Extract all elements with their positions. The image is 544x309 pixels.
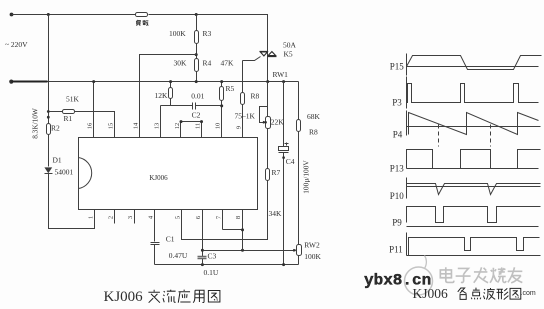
svg-text:R3: R3 <box>203 29 212 38</box>
waveform P10 axis <box>406 178 408 199</box>
svg-text:ybx8.cn: ybx8.cn <box>364 272 431 290</box>
diode D1 <box>44 167 52 173</box>
projection dashed line 1 <box>438 125 440 147</box>
svg-text:K5: K5 <box>284 50 293 59</box>
waveform P15 baseline <box>407 66 539 68</box>
svg-text:P13: P13 <box>390 164 405 174</box>
wire supply column <box>48 15 50 167</box>
svg-text:12K: 12K <box>155 91 169 100</box>
svg-text:8.3K/10W: 8.3K/10W <box>30 108 39 139</box>
resistor R3 body <box>195 31 199 44</box>
watermark swirl circle <box>405 267 433 295</box>
resistor R8 68K column <box>298 82 300 245</box>
node R3 top <box>195 13 198 16</box>
svg-text:~ 220V: ~ 220V <box>5 40 28 49</box>
wire bottom rail <box>155 264 299 266</box>
waveform P13 baseline <box>407 168 539 170</box>
node below C4 <box>282 156 285 159</box>
caption 各点波形图 <box>458 288 521 300</box>
node AC terminal top <box>10 13 14 17</box>
wire pin13 column <box>160 106 162 138</box>
svg-text:47K: 47K <box>221 59 235 68</box>
wire pin16 column <box>93 82 95 138</box>
resistor R2 body <box>47 124 51 135</box>
wire pin7 pin8 link <box>223 209 243 251</box>
svg-text:100K: 100K <box>304 252 321 261</box>
svg-text:2: 2 <box>107 216 114 219</box>
svg-text:13: 13 <box>154 123 161 130</box>
svg-text:75–1K: 75–1K <box>235 112 256 121</box>
waveform P10 trace <box>407 184 541 195</box>
label 负载 <box>136 20 148 26</box>
wire triac gate <box>243 57 261 61</box>
wire pin2 stub <box>114 209 116 224</box>
capacitor C2 wire <box>161 105 222 107</box>
svg-text:16: 16 <box>87 122 94 129</box>
wire D1 to pin1 <box>49 174 95 229</box>
svg-text:0.1U: 0.1U <box>204 268 219 277</box>
resistor R1 with wire to pin15 <box>49 112 115 138</box>
watermark 电子发烧友 <box>440 267 522 283</box>
waveform P11 axis <box>406 233 408 256</box>
svg-text:RW2: RW2 <box>304 241 320 250</box>
node R2 top <box>47 116 50 119</box>
svg-text:P11: P11 <box>389 244 403 254</box>
svg-text:.com: .com <box>521 290 536 297</box>
node R3 R4 junction <box>195 53 198 56</box>
svg-text:100μ/100V: 100μ/100V <box>302 160 311 194</box>
potentiometer RW2 body <box>297 245 302 256</box>
svg-text:RW1: RW1 <box>273 70 289 79</box>
svg-text:51K: 51K <box>66 95 80 104</box>
svg-text:10: 10 <box>215 123 222 130</box>
svg-text:R7: R7 <box>272 168 281 177</box>
svg-text:R2: R2 <box>51 124 60 133</box>
svg-text:68K: 68K <box>307 112 321 121</box>
svg-text:4: 4 <box>148 215 155 219</box>
svg-text:8: 8 <box>235 216 242 219</box>
svg-text:9: 9 <box>236 126 243 129</box>
capacitor C4 column <box>283 82 285 265</box>
watermark swirl tail <box>425 256 427 269</box>
waveform P15 axis <box>406 54 408 76</box>
wire RW1 wiper loop <box>260 107 268 123</box>
svg-text:1: 1 <box>87 216 94 219</box>
node pin16 bus <box>92 80 95 83</box>
op-amp U1 KJ006 IC body <box>79 138 258 210</box>
resistor RL load body <box>136 13 148 17</box>
wire neutral bus <box>12 81 299 83</box>
waveform P13 trace <box>407 150 541 169</box>
node C4 bus <box>282 80 285 83</box>
resistor R8 gate column pin9 <box>242 61 244 138</box>
wire neutral bold segment <box>12 80 48 82</box>
svg-text:7: 7 <box>216 215 223 219</box>
node R4 bottom <box>195 80 198 83</box>
svg-text:11: 11 <box>195 123 202 129</box>
wire pin6 pin8 to RW2 wiper <box>203 250 294 252</box>
svg-text:P4: P4 <box>393 130 403 140</box>
svg-text:50A: 50A <box>283 41 297 50</box>
svg-text:C1: C1 <box>166 235 175 244</box>
capacitor C4 plates <box>279 147 289 151</box>
svg-text:P15: P15 <box>390 62 405 72</box>
svg-text:R5: R5 <box>226 84 235 93</box>
svg-text:30K: 30K <box>174 59 188 68</box>
svg-text:R1: R1 <box>64 114 73 123</box>
wire junction to pin14 <box>140 55 197 138</box>
resistor 12K column <box>170 82 172 106</box>
svg-text:D1: D1 <box>53 156 62 165</box>
svg-text:KJ006: KJ006 <box>149 174 168 182</box>
wire pin12 pin11 link <box>181 122 202 138</box>
svg-text:100K: 100K <box>169 29 186 38</box>
svg-text:R8: R8 <box>309 128 318 137</box>
waveform P11 trace <box>409 238 540 256</box>
waveform P11 baseline <box>407 255 541 257</box>
svg-text:22K: 22K <box>271 118 285 127</box>
projection dashed line 2 <box>490 125 492 147</box>
waveform P9 trace <box>407 207 541 223</box>
svg-text:P9: P9 <box>392 217 402 227</box>
svg-text:0.47U: 0.47U <box>169 251 188 260</box>
node live tap <box>47 13 50 16</box>
svg-text:P3: P3 <box>392 98 402 108</box>
resistor R4 body <box>195 59 199 72</box>
resistor R5 column pin10 <box>221 82 223 138</box>
svg-text:R8: R8 <box>251 92 260 101</box>
triac K5 <box>260 52 277 57</box>
svg-text:C3: C3 <box>208 252 217 261</box>
capacitor C1 pin4 column <box>154 209 156 265</box>
wire top live bus <box>12 15 268 52</box>
capacitor C3 pin6 column <box>202 209 204 265</box>
svg-text:14: 14 <box>133 122 140 129</box>
svg-text:C4: C4 <box>286 157 295 166</box>
wire R7 to pin5 <box>182 181 268 240</box>
svg-text:P10: P10 <box>390 191 405 201</box>
resistor R7 body <box>266 169 270 181</box>
waveform P15 trace <box>407 56 542 70</box>
svg-text:R4: R4 <box>203 59 212 68</box>
svg-text:3: 3 <box>127 216 134 219</box>
svg-text:54001: 54001 <box>55 168 74 177</box>
waveform P3 trace <box>407 84 539 103</box>
resistor R3 column with R4 <box>196 15 198 82</box>
svg-text:12: 12 <box>174 123 181 130</box>
svg-text:15: 15 <box>108 123 115 130</box>
waveform P4 axis <box>406 111 408 136</box>
waveform P4 sawtooth trace <box>409 113 539 135</box>
waveform P3 axis <box>406 77 408 109</box>
waveform P9 baseline <box>407 226 539 228</box>
node AC terminal bottom <box>9 80 13 84</box>
svg-text:0.01: 0.01 <box>191 92 204 101</box>
waveform P10 baseline <box>407 186 541 188</box>
svg-text:C2: C2 <box>192 111 201 120</box>
wire triac column <box>267 52 269 82</box>
wire pin3 stub <box>134 209 136 224</box>
label plus <box>285 143 289 146</box>
capacitor C2 plates <box>193 103 196 110</box>
node triac bus <box>266 80 269 83</box>
potentiometer RW1 22K column <box>267 82 269 169</box>
svg-text:34K: 34K <box>269 209 283 218</box>
caption 交流应用图 <box>148 290 220 303</box>
waveform P4 threshold line <box>407 126 541 128</box>
svg-text:6: 6 <box>195 215 202 219</box>
svg-text:KJ006: KJ006 <box>104 289 144 305</box>
svg-text:5: 5 <box>175 216 182 219</box>
node R1 tap <box>47 110 50 113</box>
